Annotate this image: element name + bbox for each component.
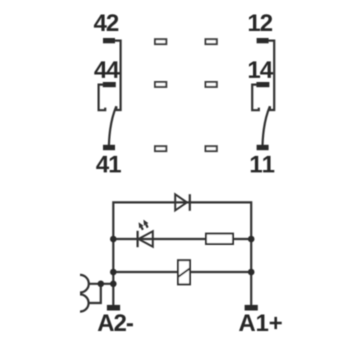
wire connector upper to node [89,283,113,285]
wire outer loop A2 up over diode branch down to A1 [113,202,251,306]
terminal pad 14 [256,82,269,87]
terminal label 41 [96,156,121,173]
junction node coil left [110,269,117,276]
terminal pad 44 [103,82,116,87]
terminal label 14 [249,61,273,78]
wire coil branch [113,271,251,273]
LED [138,220,153,248]
terminal pad 41 [103,145,115,150]
contact blade 11-12 [263,106,270,145]
junction node LED right [248,236,255,243]
terminal pad 12 [257,38,269,43]
junction node A2 [110,281,117,288]
terminal label A1+ [239,315,282,332]
terminal pad 42 [103,38,115,43]
plug-in connector upper arc [80,275,89,293]
marker rectangle row3 right [206,146,217,151]
terminal label 12 [249,14,272,31]
terminal label 11 [251,156,274,173]
marker rectangle row2 left [155,82,166,87]
terminal label 44 [94,61,119,78]
terminal pad A1 [245,305,258,311]
terminal label A2- [98,314,133,331]
terminal pad A2 [107,305,120,311]
plug-in connector lower arc [80,294,89,311]
resistor [206,234,233,244]
wire connector lower to node [89,284,101,303]
wire 42 NC contact [115,41,121,110]
relay coil K1 [178,260,190,284]
wire 14 NO contact hook [252,85,259,111]
junction node coil right [248,269,255,276]
terminal label 42 [94,14,118,31]
marker rectangle row2 right [206,82,217,87]
marker rectangle row1 right [206,39,217,44]
wire LED resistor branch [113,238,251,240]
junction node LED left [110,236,117,243]
diode V1 [175,194,190,211]
junction node connector [98,281,105,288]
marker rectangle row1 left [155,39,166,44]
terminal pad 11 [257,145,269,150]
wire 12 NC contact [268,41,274,110]
marker rectangle row3 left [155,146,166,151]
contact blade 41-42 [109,106,116,145]
wire 44 NO contact hook [99,85,106,111]
